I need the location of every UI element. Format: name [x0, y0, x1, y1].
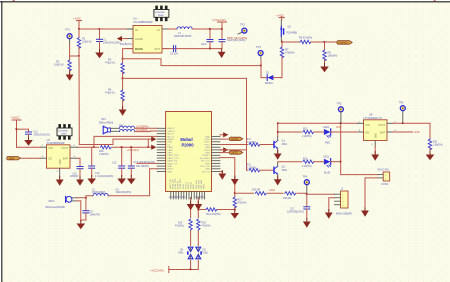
wire R1/R2 junction: [70, 55, 80, 57]
wire J1 gnd pin: [329, 198, 335, 211]
svg-text:R19 0R: R19 0R: [252, 189, 260, 192]
svg-text:KEY(2.54): KEY(2.54): [378, 169, 389, 172]
port PWRKEY: [337, 41, 352, 45]
wire C11 branch: [16, 128, 29, 130]
power arrow down OUT: [218, 49, 226, 58]
svg-text:VBAT: VBAT: [167, 146, 173, 149]
svg-text:104(16V)(10%): 104(16V)(10%): [103, 41, 121, 45]
svg-text:P5D1: P5D1: [204, 142, 210, 144]
svg-text:GND: GND: [167, 142, 172, 144]
power arrow down R2: [66, 72, 74, 81]
wire mic plus: [77, 196, 93, 198]
ground U8 arrow: [374, 146, 376, 154]
power arrow left AGND: [117, 36, 132, 46]
U5 bottom pin names: [169, 178, 206, 189]
power arrow down R4: [119, 107, 127, 116]
ground J1 arrow: [325, 210, 333, 219]
svg-text:MIC_N: MIC_N: [167, 136, 174, 138]
wire Q3 collector down: [281, 41, 283, 47]
svg-text:UART_CTS: UART_CTS: [167, 157, 179, 160]
svg-text:BYP: BYP: [63, 157, 68, 161]
sheet border top: [0, 1, 450, 2]
svg-text:R14 47k(5%): R14 47k(5%): [207, 213, 221, 216]
svg-text:2.2k(5%): 2.2k(5%): [302, 165, 312, 168]
U5 right pin names: [200, 136, 211, 173]
svg-text:3904: 3904: [282, 143, 288, 146]
wire TP1 to node: [69, 44, 71, 56]
wire mic riser: [108, 169, 157, 196]
ground C1: [95, 50, 104, 59]
border zone tick red top-left: [13, 0, 15, 1]
U5 bottom pin numbers: [169, 195, 205, 198]
svg-text:+VCC(4V): +VCC(4V): [127, 148, 139, 152]
resistor R11: [247, 138, 275, 146]
svg-text:MUTE: MUTE: [231, 153, 238, 155]
svg-text:SPI_CS: SPI_CS: [202, 171, 210, 173]
resistor R15: [175, 218, 192, 230]
svg-text:C5 104: C5 104: [170, 53, 178, 56]
node EN junction: [122, 58, 124, 60]
resistor R18: [99, 146, 112, 157]
svg-text:GND: GND: [167, 171, 172, 173]
node LED1 row: [277, 131, 279, 133]
svg-text:VIN: VIN: [48, 146, 52, 150]
ferrite FB1: [119, 125, 157, 129]
transistor Q2: [274, 165, 288, 174]
node R14 left: [198, 209, 200, 211]
capacitor C13: [128, 146, 155, 176]
ground U4 GND arrow: [56, 177, 64, 186]
node Q1 rail: [277, 122, 279, 124]
svg-text:+VCC: +VCC: [11, 116, 20, 120]
wire VIN rail top-left: [79, 28, 133, 30]
svg-text:104(C0G)(5%): 104(C0G)(5%): [116, 191, 132, 194]
wire FB row to right: [123, 59, 261, 66]
power port +VCC top-left: [73, 16, 82, 29]
U5 left pin names: [167, 127, 179, 173]
ground Q1 arrow: [274, 151, 282, 160]
svg-text:Mobul: Mobul: [180, 137, 192, 142]
testpoint TP2: [238, 22, 247, 34]
svg-text:GPA_P: GPA_P: [167, 127, 175, 130]
footprint FP2 above U3: [154, 6, 169, 22]
svg-text:CE: CE: [48, 157, 52, 161]
wire U5 bottom right arrow stub: [220, 172, 222, 174]
port RING: [220, 151, 243, 155]
svg-text:CON2: CON2: [381, 183, 389, 186]
svg-text:BYP: BYP: [380, 130, 385, 134]
node R14 right: [234, 209, 236, 211]
resistor R13: [302, 157, 321, 168]
svg-text:+VCC: +VCC: [269, 189, 276, 192]
node FB junction: [122, 77, 124, 79]
svg-text:P5D2: P5D2: [204, 144, 210, 146]
power port +VCC Q3: [276, 13, 285, 20]
wire base row: [282, 41, 300, 43]
node VCC vertical top: [340, 122, 342, 124]
svg-text:VBAT: VBAT: [167, 149, 173, 152]
inductor L2: [92, 188, 108, 195]
node TP4: [306, 193, 308, 195]
resistor R21: [428, 139, 442, 152]
svg-text:MINI-USB(5P): MINI-USB(5P): [336, 213, 352, 216]
svg-text:+1V8: +1V8: [414, 131, 421, 134]
svg-text:R22 0R(5%): R22 0R(5%): [136, 165, 149, 168]
svg-text:GND: GND: [205, 147, 210, 149]
wire VBAT row R18: [77, 146, 148, 148]
svg-text:GND: GND: [60, 159, 62, 164]
diode D1: [265, 71, 282, 84]
node Q3/R5: [281, 41, 283, 43]
svg-text:105(6V): 105(6V): [70, 176, 78, 178]
node LED2 join: [340, 161, 342, 163]
sheet border left: [1, 1, 2, 282]
svg-text:UART_RTS: UART_RTS: [167, 154, 179, 157]
svg-text:UART_RX: UART_RX: [169, 178, 172, 189]
power arrow on column P: [187, 201, 195, 210]
wire port to CE: [21, 157, 41, 159]
wire Q1 collector: [277, 137, 279, 141]
capacitor C11: [26, 129, 50, 138]
wire row2 to right: [123, 77, 247, 79]
svg-text:VPP_CLK: VPP_CLK: [200, 166, 210, 168]
U5 left pin stubs: [157, 128, 165, 171]
label C9: [116, 188, 132, 194]
svg-text:UART_RX: UART_RX: [167, 160, 178, 163]
svg-text:LOUDSPK-: LOUDSPK-: [136, 129, 148, 132]
wire Q2 collector: [277, 163, 279, 167]
resistor R2: [54, 56, 71, 74]
svg-text:TP3: TP3: [256, 45, 261, 49]
svg-text:PWRKEY: PWRKEY: [339, 43, 349, 45]
connector CON2: [378, 169, 390, 186]
U5 right pin stubs: [212, 136, 220, 171]
node TP6: [402, 122, 404, 124]
svg-text:VBAT: VBAT: [9, 157, 16, 160]
svg-text:U3: U3: [133, 16, 137, 20]
speaker SP1: [99, 117, 119, 134]
power arrow on column N: [194, 201, 202, 210]
svg-text:LED2: LED2: [323, 156, 330, 159]
svg-text:47k(5%): 47k(5%): [202, 224, 211, 227]
svg-text:MODE: MODE: [135, 47, 143, 51]
svg-text:R5 47k(5%): R5 47k(5%): [299, 37, 312, 40]
inductor L3: [168, 27, 222, 38]
diode D5 TVS: [196, 246, 209, 260]
wire arrow riser: [147, 139, 149, 147]
power arrow port1: [223, 132, 228, 137]
capacitor C12: [112, 146, 125, 176]
node bottom row: [190, 269, 192, 271]
resistor R14: [206, 208, 221, 216]
resistor R10: [247, 164, 275, 172]
LED D2: [321, 126, 341, 145]
svg-text:RESET: RESET: [203, 155, 211, 157]
testpoint TP3: [256, 45, 263, 60]
svg-text:AGND: AGND: [135, 37, 143, 41]
svg-text:UART_TX: UART_TX: [167, 162, 177, 165]
svg-text:XCL209B052MR: XCL209B052MR: [133, 20, 153, 24]
port VBAT left: [7, 157, 21, 161]
svg-text:47k(1%): 47k(1%): [105, 91, 115, 95]
svg-text:VIN: VIN: [365, 123, 369, 127]
resistor chain from EN: wire: [123, 49, 133, 63]
svg-text:TP6: TP6: [399, 100, 404, 104]
ground C10: [87, 176, 96, 185]
svg-text:104(X5R)(20%): 104(X5R)(20%): [287, 211, 304, 214]
wire VCC net vertical: [341, 123, 379, 174]
node R6 top: [324, 41, 326, 43]
svg-text:OUT: OUT: [154, 47, 160, 51]
regulator U3: [127, 16, 168, 53]
wire AVCC rail long vertical: [79, 56, 113, 145]
connector J1: [335, 188, 353, 216]
wire bottom VCC row: [169, 269, 199, 271]
ground C11: [24, 137, 33, 146]
svg-text:P2N4588: P2N4588: [287, 32, 298, 35]
resistor R19: [252, 189, 267, 195]
svg-text:1.8k(5%): 1.8k(5%): [433, 143, 443, 146]
regulator U8: [358, 113, 397, 146]
resistor R16: [197, 218, 211, 230]
wire arrow row1: [113, 137, 156, 142]
border zone tick red top-right: [434, 0, 436, 1]
svg-text:V05L: V05L: [203, 251, 209, 254]
svg-text:GND: GND: [205, 163, 210, 165]
svg-text:TP4: TP4: [303, 174, 308, 178]
U5 bottom pin stubs: [171, 192, 205, 200]
power arrow on SPI column: [231, 176, 239, 185]
power port +VCC(4V) bottom: [150, 267, 169, 273]
ground R6: [320, 64, 329, 73]
svg-text:VOUT: VOUT: [378, 123, 386, 127]
svg-text:GND: GND: [205, 169, 210, 171]
svg-text:+VCC(4V): +VCC(4V): [212, 18, 226, 22]
ground C13: [127, 176, 136, 185]
node R18 row x94: [93, 146, 95, 148]
svg-text:GND: GND: [375, 133, 377, 138]
svg-text:BAS16: BAS16: [265, 82, 273, 85]
node junction at C1 top: [99, 28, 101, 30]
svg-text:RED: RED: [325, 142, 330, 145]
wire BYP row with net label: [393, 131, 420, 134]
svg-text:ADC0: ADC0: [167, 168, 174, 171]
svg-text:10k(5%): 10k(5%): [328, 54, 338, 58]
node branch: [234, 192, 236, 194]
wire USB column P: [190, 198, 192, 270]
ferrite FB2: [120, 129, 158, 131]
wire AVCC row into MIC_N pin: [94, 135, 157, 137]
svg-text:GPA_N: GPA_N: [167, 130, 175, 133]
capacitor C10: [89, 147, 114, 178]
svg-text:2.2k(5%): 2.2k(5%): [302, 135, 312, 138]
regulator U4: [41, 138, 78, 177]
node TP3 corner: [260, 65, 262, 67]
svg-text:GND: GND: [167, 166, 172, 168]
node junction at R1 top: [78, 28, 80, 30]
ground R21: [426, 152, 435, 161]
svg-text:MIC_P: MIC_P: [167, 134, 174, 136]
svg-text:B35xx(4R)(8): B35xx(4R)(8): [99, 122, 113, 125]
wire mic minus to gnd: [77, 201, 81, 221]
wire USB column N: [197, 198, 199, 270]
footprint FP1 above U4: [57, 124, 72, 140]
power port +VCC(4V): [212, 18, 227, 29]
svg-text:TP1: TP1: [65, 27, 70, 31]
svg-text:GND: GND: [205, 153, 210, 155]
svg-text:10k(1%): 10k(1%): [54, 63, 64, 67]
svg-text:47k(5%): 47k(5%): [285, 51, 295, 55]
svg-text:2.2k(5%): 2.2k(5%): [247, 141, 257, 144]
svg-text:PWR_KEY(GPIO): PWR_KEY(GPIO): [227, 37, 247, 40]
svg-text:SPI_MISO: SPI_MISO: [200, 158, 210, 160]
resistor R5: [299, 37, 337, 44]
capacitor C16: [70, 158, 83, 178]
svg-text:LTC1844ES5-1.8: LTC1844ES5-1.8: [364, 117, 383, 120]
svg-text:P5D0: P5D0: [204, 139, 210, 141]
node mic: [85, 197, 87, 199]
svg-text:NR3015T4R7M: NR3015T4R7M: [174, 35, 191, 38]
svg-text:P2000: P2000: [181, 142, 194, 147]
capacitor C8: [81, 198, 100, 220]
ground CON2 arrow: [361, 208, 369, 217]
wire TP3 to corner node: [261, 60, 266, 78]
resistor R12: [302, 128, 321, 139]
transistor Q1: [274, 140, 288, 149]
capacitor C3: [201, 28, 213, 49]
microphone MIC1: [46, 196, 78, 209]
ground Q2 arrow: [274, 176, 282, 185]
wire U4 VIN: [17, 146, 41, 148]
wire Q2 emitter: [277, 174, 279, 178]
svg-text:4.7uF(10V)(20%): 4.7uF(10V)(20%): [95, 175, 114, 178]
wire CON2 pin2 to ground: [365, 178, 378, 208]
svg-text:BLUE: BLUE: [324, 171, 331, 174]
resistor R6: [323, 42, 337, 64]
power arrow below U5 right: [218, 171, 226, 180]
svg-text:LED1: LED1: [323, 126, 330, 129]
resistor R17: [233, 197, 247, 211]
transistor Q3 PNP: [280, 20, 298, 41]
svg-text:3904: 3904: [282, 169, 288, 172]
svg-text:AGND: AGND: [167, 138, 174, 141]
wire LED1 row: [278, 131, 303, 133]
resistor R7: [280, 47, 294, 78]
svg-text:10k(1%): 10k(1%): [82, 40, 92, 44]
wire port1 row: [220, 134, 223, 136]
svg-text:104(X7R): 104(X7R): [90, 213, 100, 216]
wire arrow row2: [147, 145, 156, 150]
resistor R1: [77, 29, 91, 56]
svg-text:VCC: VCC: [336, 126, 341, 129]
svg-text:R12: R12: [303, 128, 308, 131]
svg-text:47k(5%): 47k(5%): [238, 201, 247, 204]
svg-text:R20 0R: R20 0R: [283, 197, 291, 200]
svg-text:P5D3: P5D3: [204, 150, 210, 152]
svg-text:104(16V)(10%): 104(16V)(10%): [34, 134, 50, 137]
svg-text:AGND(3V): AGND(3V): [120, 43, 132, 46]
wire EN row: [341, 131, 358, 133]
capacitor C17: [287, 194, 310, 218]
svg-text:AUDIO: AUDIO: [231, 138, 238, 141]
port AUDIO: [220, 137, 243, 141]
wire R14 row: [198, 209, 235, 211]
svg-text:LX: LX: [157, 28, 160, 32]
svg-text:C12: C12: [112, 161, 117, 164]
LED D3: [321, 156, 341, 175]
ground C16 arrow: [76, 177, 84, 186]
svg-text:GND: GND: [205, 136, 210, 138]
svg-text:IN: IN: [135, 28, 138, 32]
resistor R3: [105, 57, 124, 90]
wire UART rows stub: [136, 163, 157, 168]
ground C17 arrow: [303, 219, 311, 228]
svg-text:BK4Linea(4R)2dB: BK4Linea(4R)2dB: [46, 206, 66, 209]
svg-text:TP5: TP5: [337, 101, 342, 105]
wire port2 row: [220, 149, 223, 151]
wire x94 riser: [93, 136, 95, 147]
svg-text:SP1: SP1: [101, 117, 106, 121]
svg-text:EN: EN: [365, 130, 369, 134]
svg-text:R13: R13: [303, 157, 308, 160]
svg-text:GND: GND: [167, 153, 172, 155]
testpoint TP6: [399, 100, 406, 123]
svg-text:SPI_CLK: SPI_CLK: [201, 161, 210, 163]
testpoint TP1: [65, 27, 72, 44]
wire branch row to J1: [235, 192, 335, 195]
svg-text:TP2: TP2: [240, 22, 245, 26]
resistor R4: [105, 87, 124, 109]
svg-text:+VCC: +VCC: [73, 16, 82, 20]
wire Q2 link riser: [220, 78, 247, 170]
op-amp U5 main IC body: [166, 112, 212, 192]
capacitor C1: [97, 29, 121, 50]
ground R17: [231, 210, 240, 219]
testpoint TP4: [303, 174, 310, 193]
svg-text:+VCC(4V): +VCC(4V): [150, 268, 164, 272]
capacitor C4: [219, 28, 246, 49]
wire SPI column: [220, 158, 235, 197]
testpoint TP5: [337, 101, 344, 123]
svg-text:MIC1: MIC1: [49, 199, 56, 203]
svg-text:VOUT: VOUT: [61, 146, 69, 150]
svg-text:10uF: 10uF: [201, 43, 207, 46]
capacitor C5 series on OUT: [170, 46, 178, 56]
wire Q2 base row: [247, 169, 250, 171]
svg-text:GND: GND: [204, 184, 206, 189]
svg-text:SIM_DAT: SIM_DAT: [200, 179, 203, 189]
resistor R20: [283, 192, 297, 200]
ground C8: [77, 221, 86, 230]
svg-text:2.2k(5%): 2.2k(5%): [247, 167, 257, 170]
wire Q1 base row: [220, 144, 249, 146]
wire OUT row: [162, 48, 222, 50]
svg-text:47k(5%): 47k(5%): [175, 224, 184, 227]
wire VCC rail to U8: [278, 122, 358, 124]
diode D4 TVS: [178, 246, 193, 260]
power arrow port2: [223, 147, 228, 152]
svg-text:+VCC: +VCC: [276, 13, 285, 17]
wire VOUT row right: [393, 123, 430, 139]
ground C12: [117, 176, 126, 185]
svg-text:2.2k(5%): 2.2k(5%): [99, 153, 109, 156]
svg-text:47k(1%): 47k(1%): [105, 61, 115, 65]
power port +VCC U4: [11, 116, 21, 147]
wire Q1 emitter: [277, 148, 279, 152]
svg-text:V05L: V05L: [178, 251, 184, 254]
svg-text:C16: C16: [73, 173, 78, 175]
